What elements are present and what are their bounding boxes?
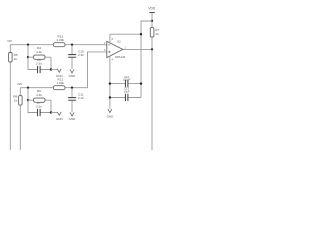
svg-text:4.4k: 4.4k [36,93,42,97]
op-amp U2 [104,38,126,62]
svg-text:GND: GND [69,74,77,78]
node junction RC-gnd top [50,68,52,70]
svg-text:1k: 1k [14,57,18,61]
node junction top RC left [27,56,29,58]
svg-text:8: 8 [112,38,114,41]
resistor R6 [28,89,51,102]
ground C10 [69,69,77,78]
svg-text:1.09k: 1.09k [56,38,64,42]
svg-text:2.2n: 2.2n [78,53,84,57]
svg-text:100nF: 100nF [123,78,131,82]
wire bottom main horizontal [20,52,107,88]
svg-text:GND: GND [56,117,64,121]
wire node-A down to RC [27,45,29,58]
capacitor C6 [28,57,51,73]
node junction C12 left [109,82,111,84]
node junction VDD [151,20,153,22]
node junction C13 left [109,96,111,98]
wire output rail down [151,49,153,150]
node junction top-B [71,44,73,46]
resistor R5 [9,53,18,63]
capacitor C7 [28,100,51,116]
node junction bottom RC left [27,99,29,101]
svg-text:4: 4 [112,59,114,62]
svg-text:3.3n: 3.3n [36,61,42,65]
resistor R13 [53,35,65,47]
svg-text:GND: GND [107,114,115,118]
wire VDD to supply rail [141,21,152,98]
net label INN [18,82,23,86]
resistor R8 [13,94,22,105]
wire op-amp V- pin down [109,56,111,109]
power VDD [148,7,155,21]
svg-text:2.2n: 2.2n [78,96,84,100]
svg-text:4.4k: 4.4k [36,50,42,54]
resistor R12 [53,78,65,90]
svg-text:VDD: VDD [148,7,155,11]
svg-text:10uF: 10uF [124,89,130,93]
node junction output [151,48,153,50]
node junction bot-A [27,87,29,89]
ground supply [107,109,115,118]
node junction V+ rail [140,33,142,35]
ground bottom RC [51,112,63,121]
node junction top-A [27,44,29,46]
svg-text:1.09k: 1.09k [56,81,64,85]
capacitor C10 [68,45,84,69]
svg-text:1k: 1k [14,98,18,102]
wire top main horizontal [10,44,107,46]
svg-text:U2: U2 [117,40,121,44]
net label INP [8,39,13,43]
ground C11 [69,112,77,121]
svg-text:GND: GND [69,117,77,121]
capacitor C13 [110,87,141,101]
capacitor C12 [110,75,141,87]
svg-text:INP: INP [8,39,13,43]
resistor R7 [150,21,159,49]
wire node down to RC bottom [27,88,29,101]
svg-text:INN: INN [18,82,23,86]
wire op-amp V+ pin to VDD rail [110,34,141,43]
svg-text:3.3n: 3.3n [36,104,42,108]
node junction RC-gnd bottom [50,111,52,113]
node junction bot-B [71,87,73,89]
svg-text:OPA134: OPA134 [115,55,126,59]
svg-text:1k: 1k [155,32,159,36]
capacitor C11 [68,88,84,113]
wire left input rail top [9,45,11,150]
ground top RC [51,69,63,78]
resistor R4 [28,46,51,59]
wire op-amp output [123,48,152,50]
node junction C12 right [140,82,142,84]
wire left input rail bottom [19,88,21,150]
